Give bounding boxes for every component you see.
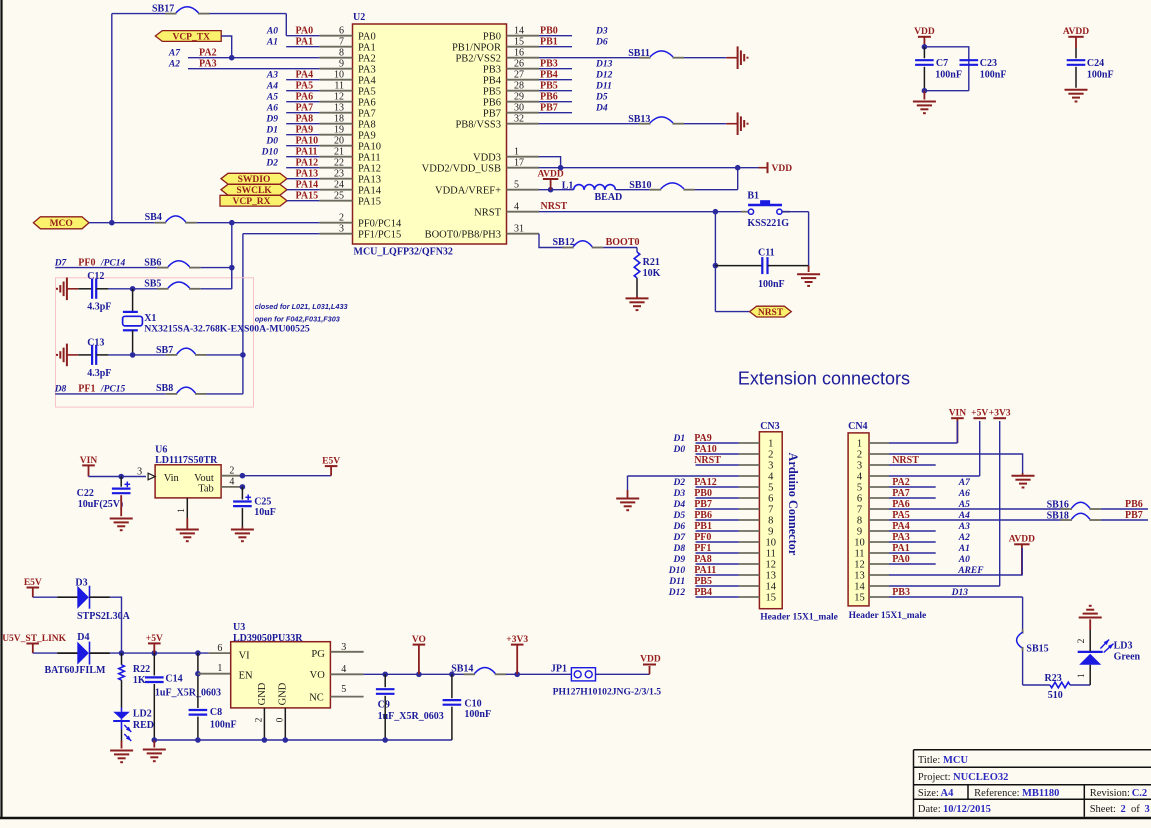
svg-text:+5V: +5V [146, 634, 163, 644]
svg-text:NRST: NRST [541, 201, 568, 212]
svg-text:Header 15X1_male: Header 15X1_male [849, 611, 927, 621]
svg-text:13: 13 [766, 571, 777, 582]
svg-text:D13: D13 [951, 588, 969, 598]
svg-text:D8: D8 [672, 544, 685, 554]
svg-text:PA1: PA1 [358, 42, 376, 53]
svg-text:28: 28 [514, 80, 524, 91]
svg-text:SB10: SB10 [629, 180, 651, 191]
svg-text:PA5: PA5 [892, 510, 910, 521]
svg-text:Tab: Tab [198, 484, 214, 495]
svg-text:3: 3 [857, 461, 862, 472]
svg-text:9: 9 [857, 527, 862, 538]
svg-text:22: 22 [334, 157, 344, 168]
svg-text:RED: RED [133, 720, 154, 731]
svg-text:R21: R21 [643, 257, 660, 268]
svg-text:6: 6 [217, 643, 222, 654]
svg-text:VDDA/VREF+: VDDA/VREF+ [435, 185, 501, 196]
svg-text:C12: C12 [87, 271, 104, 282]
svg-text:PA3: PA3 [199, 59, 217, 70]
svg-text:C23: C23 [980, 58, 997, 69]
svg-text:PB6: PB6 [483, 97, 501, 108]
svg-text:26: 26 [514, 58, 524, 69]
svg-text:3: 3 [1145, 804, 1150, 815]
svg-text:PA2: PA2 [199, 48, 217, 59]
svg-text:AREF: AREF [957, 566, 984, 576]
svg-text:SB16: SB16 [1047, 499, 1069, 510]
svg-text:KSS221G: KSS221G [747, 218, 789, 229]
svg-text:Arduino Connector: Arduino Connector [786, 453, 800, 556]
svg-text:A4: A4 [958, 511, 970, 521]
svg-text:+3V3: +3V3 [989, 409, 1011, 419]
svg-text:30: 30 [514, 102, 524, 113]
svg-text:PA2: PA2 [358, 53, 376, 64]
svg-text:VO: VO [310, 670, 326, 681]
svg-text:Revision:: Revision: [1090, 788, 1130, 799]
svg-text:PB3: PB3 [892, 587, 910, 598]
svg-text:Header 15X1_male: Header 15X1_male [760, 613, 838, 623]
svg-text:PA7: PA7 [892, 488, 910, 499]
svg-text:10uF(25V): 10uF(25V) [78, 499, 124, 510]
svg-text:PB1: PB1 [540, 37, 558, 48]
svg-text:PA15: PA15 [358, 196, 381, 207]
svg-text:Extension connectors: Extension connectors [738, 369, 910, 389]
svg-text:SWDIO: SWDIO [238, 175, 271, 185]
svg-text:BAT60JFILM: BAT60JFILM [45, 665, 106, 676]
svg-text:100nF: 100nF [210, 719, 237, 730]
svg-text:SB15: SB15 [1026, 644, 1048, 655]
svg-text:13: 13 [854, 571, 865, 582]
svg-text:GND: GND [257, 682, 268, 705]
svg-text:PF0/PC14: PF0/PC14 [358, 218, 402, 229]
svg-text:8: 8 [857, 516, 862, 527]
svg-text:D7: D7 [672, 533, 686, 543]
svg-text:VCP_RX: VCP_RX [233, 197, 271, 207]
svg-text:D3: D3 [595, 27, 608, 37]
svg-text:C24: C24 [1087, 58, 1104, 69]
svg-text:PA11: PA11 [694, 565, 716, 576]
svg-text:VDD: VDD [640, 655, 661, 665]
svg-text:PB2/VSS2: PB2/VSS2 [455, 53, 501, 64]
svg-text:21: 21 [334, 146, 344, 157]
svg-text:MCU: MCU [943, 755, 968, 766]
svg-text:LD1117S50TR: LD1117S50TR [155, 455, 218, 466]
svg-text:PA1: PA1 [892, 543, 910, 554]
svg-text:8: 8 [339, 47, 344, 58]
svg-text:5: 5 [341, 684, 346, 695]
svg-text:STPS2L30A: STPS2L30A [77, 611, 131, 622]
svg-text:3: 3 [339, 223, 344, 234]
svg-text:PA14: PA14 [296, 180, 319, 191]
svg-text:6: 6 [768, 494, 773, 505]
svg-text:D6: D6 [595, 38, 608, 48]
svg-text:PA12: PA12 [296, 158, 319, 169]
svg-text:PB7: PB7 [694, 499, 712, 510]
svg-text:12: 12 [766, 560, 777, 571]
svg-text:D3: D3 [672, 489, 685, 499]
svg-text:A1: A1 [958, 544, 970, 554]
svg-text:D11: D11 [668, 577, 685, 587]
svg-text:LD3: LD3 [1114, 641, 1133, 652]
svg-text:PA9: PA9 [694, 433, 712, 444]
svg-text:D6: D6 [672, 522, 685, 532]
svg-text:A4: A4 [266, 82, 278, 92]
svg-text:A6: A6 [266, 104, 278, 114]
svg-text:1uF_X5R_0603: 1uF_X5R_0603 [378, 711, 444, 722]
svg-text:14: 14 [766, 582, 777, 593]
svg-text:PA4: PA4 [296, 70, 314, 81]
svg-text:D9: D9 [265, 115, 278, 125]
svg-text:D13: D13 [595, 60, 613, 70]
svg-text:NX3215SA-32.768K-EXS00A-MU0052: NX3215SA-32.768K-EXS00A-MU00525 [144, 323, 310, 334]
svg-text:PA6: PA6 [296, 92, 314, 103]
svg-text:PA10: PA10 [296, 136, 319, 147]
svg-text:100nF: 100nF [758, 279, 785, 290]
svg-text:16: 16 [514, 47, 524, 58]
svg-text:4.3pF: 4.3pF [87, 368, 111, 379]
svg-text:2: 2 [229, 465, 234, 476]
svg-text:PB7: PB7 [540, 103, 558, 114]
svg-text:C10: C10 [464, 698, 481, 709]
svg-text:15: 15 [514, 36, 524, 47]
svg-text:PA4: PA4 [358, 75, 376, 86]
svg-text:PA3: PA3 [892, 532, 910, 543]
svg-text:of: of [1131, 804, 1140, 815]
svg-text:BEAD: BEAD [595, 192, 623, 203]
svg-text:AVDD: AVDD [1009, 535, 1035, 545]
svg-text:2: 2 [339, 212, 344, 223]
svg-text:0: 0 [275, 717, 285, 722]
svg-text:PB3: PB3 [540, 59, 558, 70]
svg-text:A0: A0 [958, 555, 970, 565]
svg-text:A3: A3 [266, 71, 278, 81]
svg-text:2: 2 [1121, 804, 1126, 815]
svg-text:SWCLK: SWCLK [236, 186, 272, 196]
svg-text:31: 31 [514, 223, 524, 234]
svg-text:PA13: PA13 [358, 174, 381, 185]
svg-text:PF1: PF1 [78, 384, 95, 395]
svg-text:10/12/2015: 10/12/2015 [943, 804, 991, 815]
svg-text:PF1: PF1 [694, 543, 711, 554]
svg-text:D5: D5 [595, 93, 608, 103]
svg-text:/PC15: /PC15 [100, 385, 126, 395]
svg-text:14: 14 [514, 25, 524, 36]
svg-text:5: 5 [768, 483, 773, 494]
svg-text:D4: D4 [595, 104, 608, 114]
svg-text:100nF: 100nF [980, 69, 1007, 80]
svg-text:PA11: PA11 [296, 147, 318, 158]
svg-text:27: 27 [514, 69, 524, 80]
svg-text:10: 10 [334, 69, 344, 80]
svg-text:D4: D4 [672, 500, 685, 510]
svg-text:PA8: PA8 [358, 119, 376, 130]
svg-text:VDD: VDD [772, 164, 793, 174]
svg-text:E5V: E5V [24, 578, 42, 588]
svg-text:VCP_TX: VCP_TX [172, 32, 210, 42]
svg-text:PB1/NPOR: PB1/NPOR [452, 42, 501, 53]
svg-text:4: 4 [514, 201, 519, 212]
svg-text:PB4: PB4 [540, 70, 558, 81]
svg-text:JP1: JP1 [551, 663, 567, 674]
svg-text:1uF_X5R_0603: 1uF_X5R_0603 [155, 687, 221, 698]
svg-text:MB1180: MB1180 [1022, 788, 1059, 799]
svg-text:Sheet:: Sheet: [1090, 804, 1116, 815]
svg-text:PA3: PA3 [358, 64, 376, 75]
svg-text:B1: B1 [747, 190, 759, 201]
svg-text:SB11: SB11 [628, 48, 650, 59]
svg-text:1: 1 [177, 508, 187, 513]
svg-text:NUCLEO32: NUCLEO32 [953, 772, 1008, 783]
svg-text:19: 19 [334, 124, 344, 135]
svg-text:closed for L021, L031,L433: closed for L021, L031,L433 [255, 302, 348, 311]
svg-text:Vout: Vout [194, 473, 214, 484]
svg-text:C9: C9 [378, 699, 390, 710]
svg-text:12: 12 [334, 91, 344, 102]
svg-text:32: 32 [514, 113, 524, 124]
svg-text:1: 1 [768, 439, 773, 450]
svg-text:2: 2 [857, 450, 862, 461]
svg-text:PA8: PA8 [694, 554, 712, 565]
svg-text:PB6: PB6 [1125, 499, 1143, 510]
svg-text:10K: 10K [643, 268, 661, 279]
svg-text:4: 4 [768, 472, 774, 483]
svg-text:PA5: PA5 [358, 86, 376, 97]
svg-text:VI: VI [239, 650, 251, 661]
svg-text:D0: D0 [672, 445, 685, 455]
svg-text:PB6: PB6 [694, 510, 712, 521]
svg-text:PA5: PA5 [296, 81, 314, 92]
svg-text:25: 25 [334, 190, 344, 201]
svg-text:PB3: PB3 [483, 64, 501, 75]
svg-text:10uF: 10uF [254, 507, 276, 518]
svg-text:R23: R23 [1045, 673, 1062, 684]
svg-text:PA15: PA15 [296, 191, 319, 202]
svg-text:NC: NC [309, 693, 324, 704]
svg-text:BOOT0: BOOT0 [606, 237, 640, 248]
svg-text:PA7: PA7 [358, 108, 376, 119]
svg-text:A1: A1 [266, 38, 278, 48]
svg-text:13: 13 [334, 102, 344, 113]
svg-text:Size:: Size: [918, 788, 939, 799]
svg-text:VIN: VIN [80, 456, 98, 466]
svg-text:AVDD: AVDD [537, 169, 563, 179]
svg-text:A7: A7 [958, 478, 971, 488]
svg-text:PB5: PB5 [483, 86, 501, 97]
svg-text:U3: U3 [233, 622, 245, 633]
svg-text:PB4: PB4 [694, 587, 712, 598]
svg-text:open for F042,F031,F303: open for F042,F031,F303 [255, 315, 340, 324]
svg-text:C7: C7 [936, 58, 948, 69]
svg-text:MCU_LQFP32/QFN32: MCU_LQFP32/QFN32 [354, 247, 453, 258]
svg-text:2: 2 [768, 450, 773, 461]
svg-text:D10: D10 [261, 148, 279, 158]
svg-text:11: 11 [854, 549, 864, 560]
svg-text:PB5: PB5 [540, 81, 558, 92]
svg-text:PA13: PA13 [296, 169, 319, 180]
svg-text:PB0: PB0 [483, 31, 501, 42]
svg-text:D1: D1 [265, 126, 278, 136]
svg-text:PA11: PA11 [358, 152, 381, 163]
svg-text:PA0: PA0 [892, 554, 910, 565]
svg-text:A5: A5 [266, 93, 278, 103]
svg-text:D4: D4 [77, 632, 89, 643]
svg-text:PB0: PB0 [540, 26, 558, 37]
svg-text:11: 11 [766, 549, 776, 560]
svg-text:C11: C11 [758, 248, 775, 259]
svg-text:510: 510 [1048, 690, 1063, 701]
svg-text:4: 4 [341, 664, 346, 675]
svg-text:1: 1 [857, 439, 862, 450]
svg-text:SB13: SB13 [628, 114, 650, 125]
svg-text:9: 9 [768, 527, 773, 538]
svg-text:10: 10 [766, 538, 777, 549]
svg-text:A5: A5 [958, 500, 970, 510]
svg-text:MCO: MCO [50, 219, 73, 229]
svg-text:PF0: PF0 [694, 532, 711, 543]
svg-text:D9: D9 [672, 555, 685, 565]
svg-text:NRST: NRST [758, 308, 784, 318]
svg-text:U6: U6 [155, 445, 167, 456]
svg-text:11: 11 [334, 80, 344, 91]
svg-text:15: 15 [766, 593, 777, 604]
svg-text:A0: A0 [266, 27, 278, 37]
svg-text:VDD2/VDD_USB: VDD2/VDD_USB [422, 163, 501, 174]
svg-text:6: 6 [857, 494, 862, 505]
svg-text:D2: D2 [672, 478, 685, 488]
svg-text:4: 4 [229, 476, 234, 487]
svg-text:PA9: PA9 [358, 130, 376, 141]
svg-text:PF0: PF0 [78, 257, 95, 268]
svg-text:PA10: PA10 [694, 444, 717, 455]
svg-text:SB5: SB5 [144, 278, 161, 289]
svg-text:PB4: PB4 [483, 75, 502, 86]
svg-text:Project:: Project: [918, 772, 951, 783]
svg-text:100nF: 100nF [935, 69, 962, 80]
svg-text:CN3: CN3 [760, 421, 779, 432]
svg-text:17: 17 [514, 157, 524, 168]
svg-text:PA14: PA14 [358, 185, 382, 196]
svg-text:PA8: PA8 [296, 114, 314, 125]
svg-text:SB6: SB6 [144, 258, 161, 269]
svg-text:5: 5 [514, 179, 519, 190]
svg-text:C13: C13 [87, 337, 104, 348]
svg-text:SB17: SB17 [152, 3, 174, 14]
svg-text:9: 9 [339, 58, 344, 69]
svg-text:VDD3: VDD3 [473, 152, 501, 163]
svg-text:14: 14 [854, 582, 865, 593]
svg-text:VO: VO [412, 635, 426, 645]
svg-text:NRST: NRST [694, 455, 721, 466]
svg-text:C14: C14 [165, 674, 182, 685]
svg-text:PH127H10102JNG-2/3/1.5: PH127H10102JNG-2/3/1.5 [553, 686, 662, 697]
svg-text:A2: A2 [168, 60, 180, 70]
svg-text:LD39050PU33R: LD39050PU33R [233, 633, 303, 644]
svg-text:D12: D12 [668, 588, 686, 598]
svg-text:1K: 1K [133, 675, 146, 686]
svg-text:Vin: Vin [164, 473, 180, 484]
svg-text:12: 12 [854, 560, 865, 571]
svg-text:C.2: C.2 [1132, 788, 1147, 799]
svg-text:100nF: 100nF [1087, 69, 1114, 80]
svg-text:SB8: SB8 [156, 383, 173, 394]
svg-text:A2: A2 [958, 533, 970, 543]
svg-text:A7: A7 [168, 49, 181, 59]
svg-text:7: 7 [339, 36, 344, 47]
svg-text:D0: D0 [265, 137, 278, 147]
svg-text:7: 7 [857, 505, 862, 516]
svg-text:4.3pF: 4.3pF [87, 301, 111, 312]
svg-text:NRST: NRST [892, 455, 919, 466]
svg-text:PA10: PA10 [358, 141, 381, 152]
svg-text:PB7: PB7 [1125, 510, 1143, 521]
svg-text:SB14: SB14 [451, 664, 473, 675]
svg-text:PB0: PB0 [694, 488, 712, 499]
svg-text:PA2: PA2 [892, 477, 910, 488]
svg-text:LD2: LD2 [133, 709, 152, 720]
svg-text:29: 29 [514, 91, 524, 102]
svg-text:D3: D3 [75, 577, 87, 588]
svg-text:PA0: PA0 [296, 26, 314, 37]
svg-text:EN: EN [239, 671, 253, 682]
svg-text:+5V: +5V [971, 409, 988, 419]
svg-text:D2: D2 [265, 159, 278, 169]
svg-text:2: 2 [255, 717, 265, 722]
svg-text:A6: A6 [958, 489, 970, 499]
svg-text:24: 24 [334, 179, 344, 190]
svg-text:PA9: PA9 [296, 125, 314, 136]
svg-text:PA12: PA12 [694, 477, 717, 488]
svg-text:10: 10 [854, 538, 865, 549]
svg-text:L1: L1 [562, 181, 574, 192]
svg-text:Green: Green [1114, 652, 1141, 663]
svg-text:U2: U2 [353, 12, 365, 23]
svg-text:4: 4 [857, 472, 863, 483]
svg-text:1: 1 [217, 663, 222, 674]
svg-text:3: 3 [341, 642, 346, 653]
svg-text:SB7: SB7 [156, 345, 173, 356]
svg-text:PA6: PA6 [358, 97, 376, 108]
svg-text:D5: D5 [672, 511, 685, 521]
svg-text:A3: A3 [958, 522, 970, 532]
svg-text:D8: D8 [54, 385, 67, 395]
svg-text:E5V: E5V [322, 457, 340, 467]
svg-text:PF1/PC15: PF1/PC15 [358, 229, 401, 240]
svg-text:Date:: Date: [918, 804, 941, 815]
svg-text:6: 6 [339, 25, 344, 36]
svg-text:PB8/VSS3: PB8/VSS3 [455, 119, 501, 130]
svg-text:C22: C22 [77, 488, 94, 499]
svg-text:Reference:: Reference: [974, 788, 1020, 799]
svg-text:D10: D10 [668, 566, 686, 576]
svg-text:VIN: VIN [949, 409, 967, 419]
svg-text:NRST: NRST [474, 207, 501, 218]
svg-text:2: 2 [1077, 638, 1087, 643]
svg-text:PB1: PB1 [694, 521, 712, 532]
svg-text:PB6: PB6 [540, 92, 558, 103]
svg-text:1: 1 [514, 146, 519, 157]
svg-text:PB7: PB7 [483, 108, 501, 119]
svg-text:Title:: Title: [918, 755, 940, 766]
svg-text:PA1: PA1 [296, 37, 314, 48]
svg-text:PA0: PA0 [358, 31, 376, 42]
svg-text:18: 18 [334, 113, 344, 124]
svg-text:GND: GND [278, 682, 289, 705]
svg-text:C8: C8 [210, 707, 222, 718]
svg-text:20: 20 [334, 135, 344, 146]
svg-text:1: 1 [1077, 673, 1087, 678]
svg-text:A4: A4 [941, 788, 955, 799]
svg-text:3: 3 [768, 461, 773, 472]
svg-text:D12: D12 [595, 71, 613, 81]
